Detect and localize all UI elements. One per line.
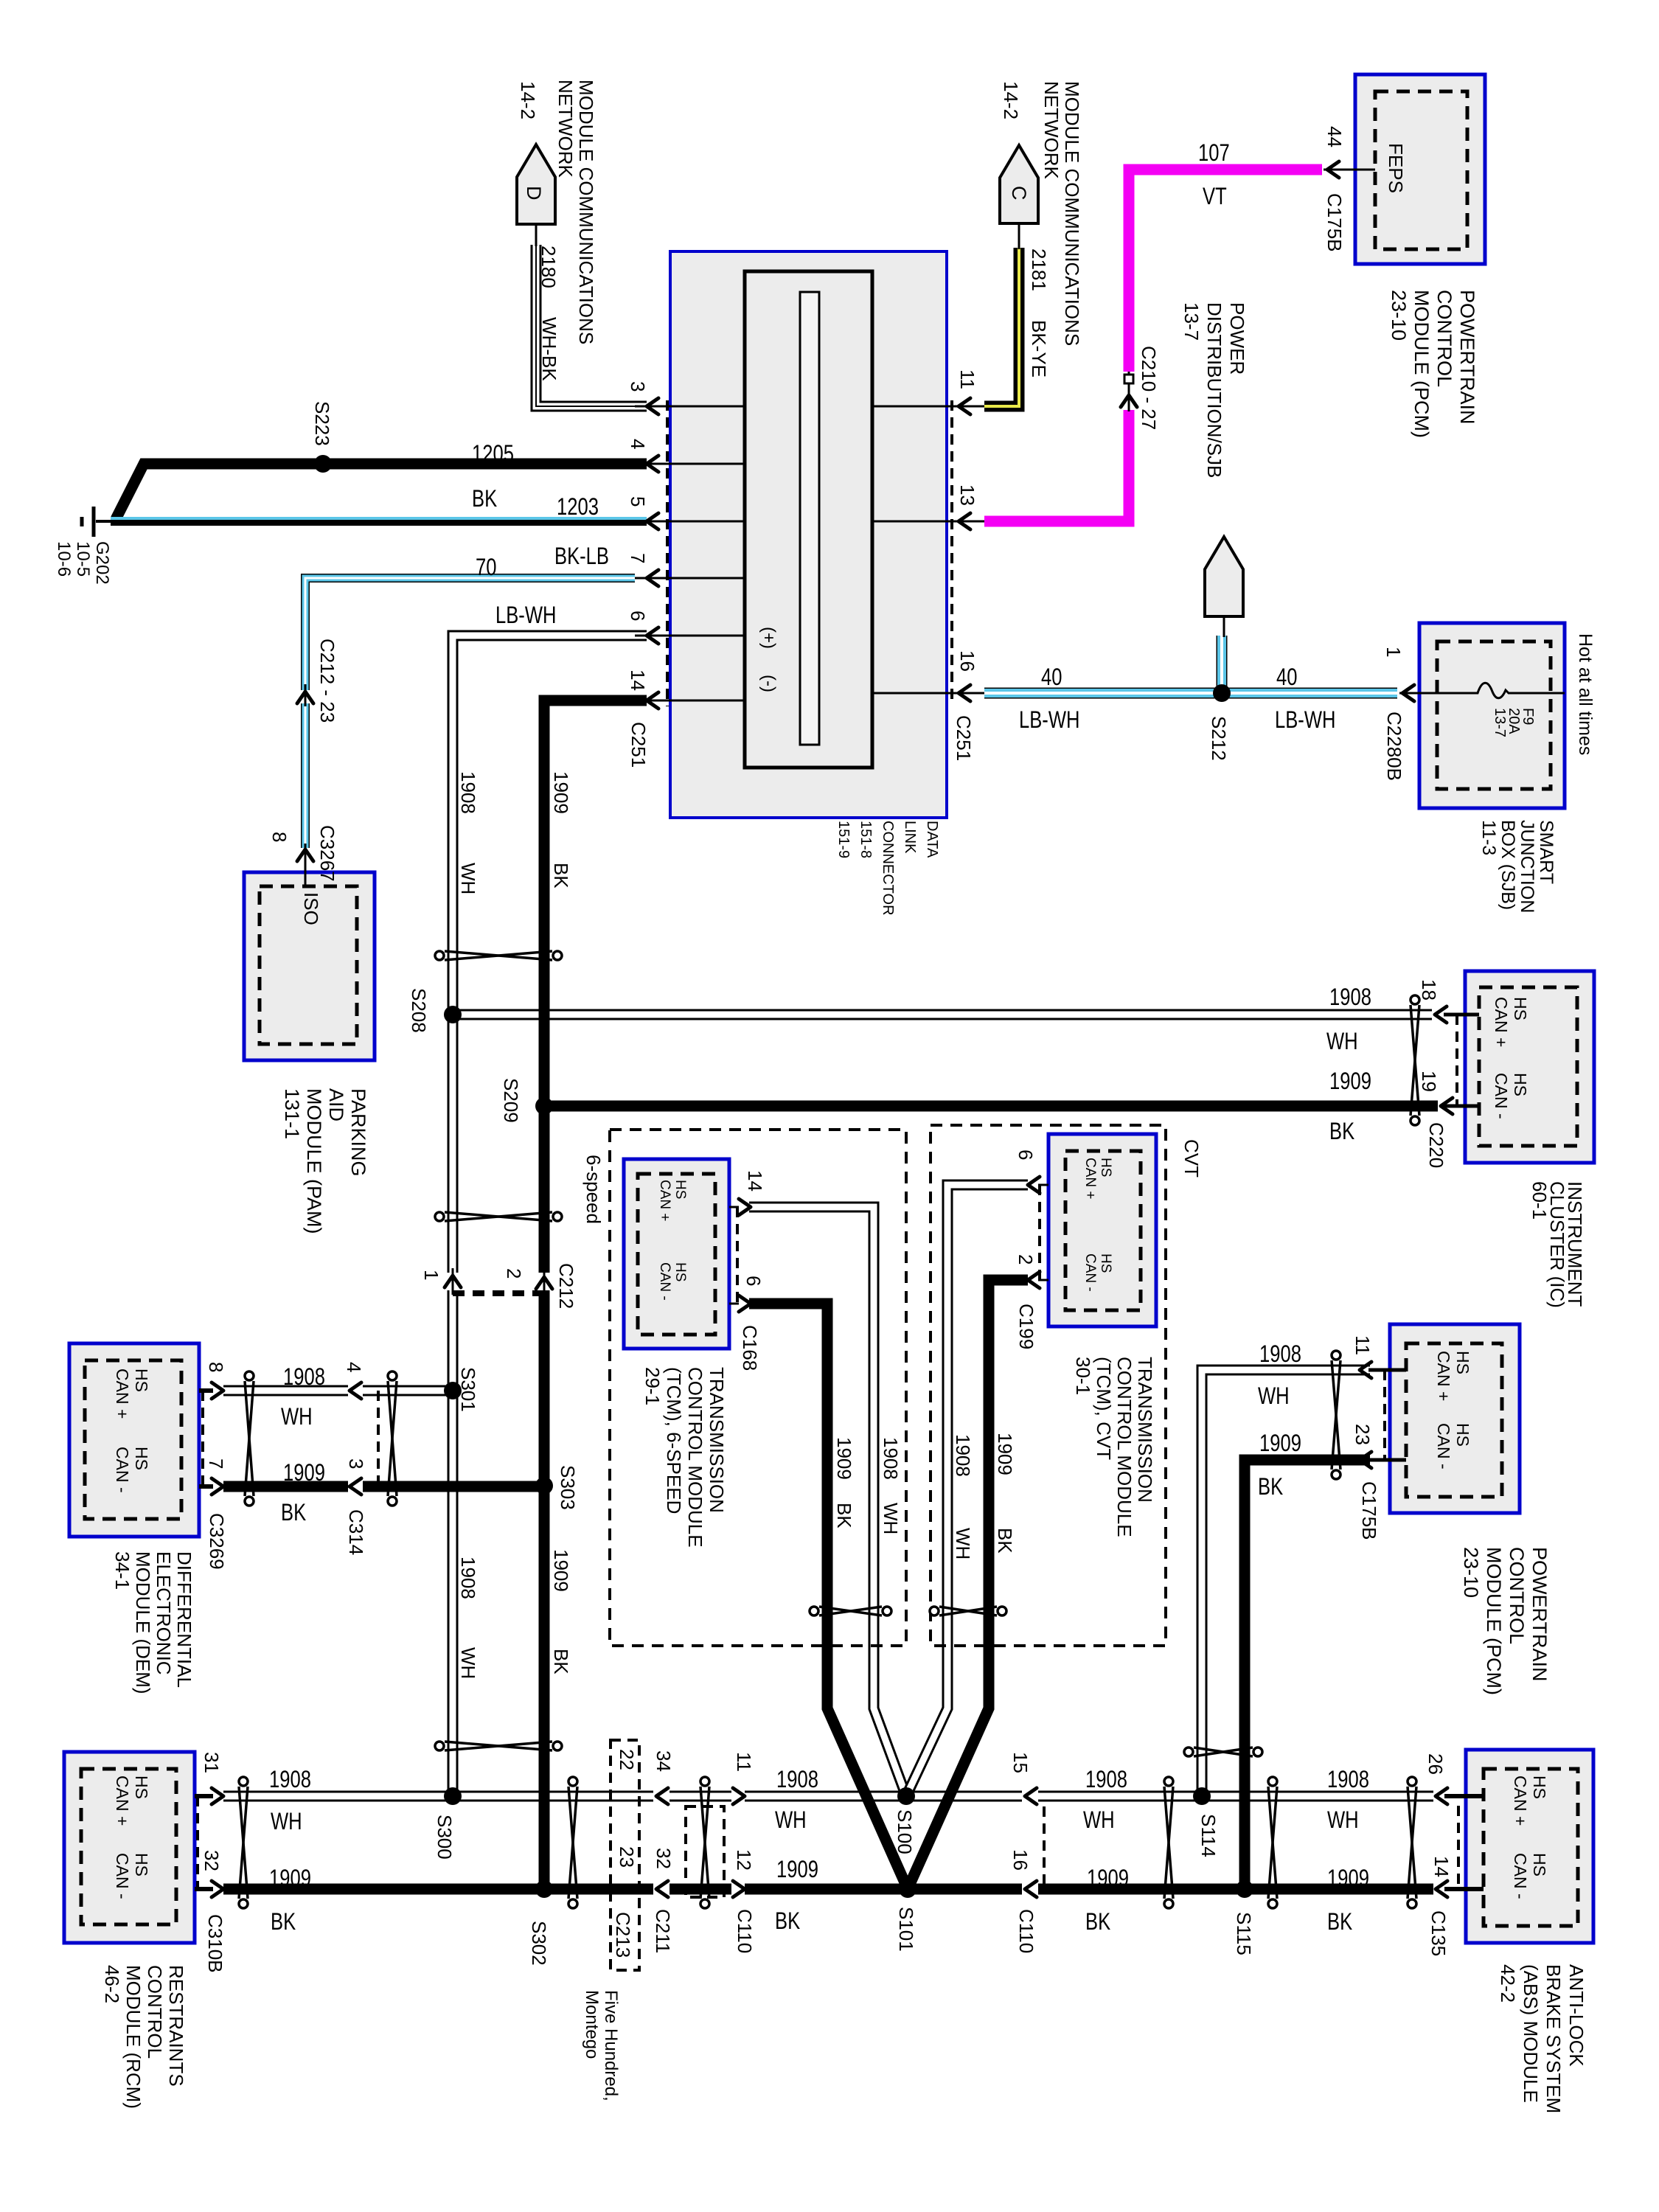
svg-text:S100: S100	[894, 1809, 916, 1854]
svg-text:1908: 1908	[952, 1434, 974, 1477]
svg-text:31: 31	[201, 1752, 223, 1773]
svg-text:4: 4	[627, 439, 649, 449]
svg-text:BK: BK	[1085, 1909, 1110, 1935]
svg-text:WH: WH	[1258, 1383, 1290, 1409]
svg-text:6: 6	[742, 1276, 765, 1286]
svg-text:16: 16	[1009, 1849, 1032, 1871]
svg-text:40: 40	[1276, 664, 1297, 690]
svg-text:BK: BK	[1329, 1119, 1354, 1144]
svg-text:1908: 1908	[880, 1437, 902, 1480]
svg-text:WH: WH	[775, 1807, 807, 1833]
svg-text:18: 18	[1418, 979, 1440, 1001]
svg-text:4: 4	[343, 1362, 365, 1372]
svg-text:1908: 1908	[457, 1557, 479, 1599]
svg-text:1909: 1909	[283, 1460, 325, 1486]
svg-text:C212: C212	[555, 1263, 577, 1309]
svg-text:S302: S302	[528, 1921, 550, 1966]
svg-text:16: 16	[956, 650, 978, 672]
svg-text:1909: 1909	[1329, 1068, 1371, 1094]
svg-text:S114: S114	[1197, 1814, 1220, 1857]
svg-text:BK-LB: BK-LB	[554, 543, 609, 569]
svg-text:1908: 1908	[269, 1767, 311, 1792]
svg-text:C211: C211	[652, 1909, 674, 1953]
svg-text:ISO: ISO	[300, 892, 322, 925]
svg-text:CVT: CVT	[1180, 1139, 1203, 1178]
svg-text:LB-WH: LB-WH	[1019, 707, 1079, 733]
svg-text:1909: 1909	[1087, 1865, 1129, 1891]
svg-text:32: 32	[653, 1848, 675, 1869]
svg-text:BK: BK	[550, 1649, 572, 1674]
svg-text:2: 2	[1015, 1254, 1037, 1265]
svg-text:C3267: C3267	[316, 825, 338, 882]
svg-text:1909: 1909	[833, 1437, 855, 1480]
svg-text:WH: WH	[457, 863, 479, 894]
svg-text:S208: S208	[408, 988, 430, 1033]
svg-text:1909: 1909	[550, 1549, 572, 1592]
svg-text:C220: C220	[1425, 1122, 1447, 1168]
svg-text:1909: 1909	[776, 1857, 818, 1882]
svg-text:BK: BK	[833, 1503, 855, 1528]
svg-text:6: 6	[1015, 1150, 1037, 1160]
svg-text:Hot at all times: Hot at all times	[1575, 633, 1596, 755]
svg-text:32: 32	[201, 1850, 223, 1871]
svg-text:BK: BK	[281, 1500, 306, 1526]
svg-text:7: 7	[627, 553, 649, 563]
svg-text:12: 12	[733, 1849, 755, 1871]
svg-text:1203: 1203	[557, 494, 599, 520]
svg-text:14-2: 14-2	[1000, 81, 1022, 119]
svg-text:BK: BK	[1258, 1474, 1283, 1500]
svg-text:BK: BK	[775, 1908, 800, 1934]
svg-text:C3269: C3269	[206, 1513, 228, 1570]
svg-text:26: 26	[1425, 1753, 1447, 1775]
svg-text:S212: S212	[1208, 716, 1230, 761]
svg-text:S101: S101	[895, 1907, 917, 1952]
svg-text:S301: S301	[457, 1367, 479, 1412]
svg-text:14: 14	[744, 1170, 766, 1192]
svg-text:BK: BK	[472, 486, 497, 512]
svg-text:19: 19	[1418, 1071, 1440, 1092]
svg-text:3: 3	[345, 1458, 367, 1469]
svg-text:LB-WH: LB-WH	[495, 602, 556, 628]
svg-text:C175B: C175B	[1324, 193, 1346, 252]
svg-text:C210 - 27: C210 - 27	[1138, 346, 1160, 430]
svg-text:BK: BK	[550, 863, 572, 888]
svg-text:1908: 1908	[1327, 1767, 1369, 1792]
svg-text:FEPS: FEPS	[1385, 143, 1407, 193]
svg-text:3: 3	[627, 381, 649, 392]
svg-text:1: 1	[420, 1270, 442, 1280]
svg-text:LB-WH: LB-WH	[1275, 707, 1335, 733]
svg-text:C: C	[1008, 186, 1030, 201]
svg-text:2180: 2180	[538, 246, 560, 288]
svg-text:D: D	[523, 186, 545, 201]
svg-text:1908: 1908	[283, 1364, 325, 1390]
svg-text:1908: 1908	[1329, 984, 1371, 1010]
svg-text:WH: WH	[457, 1647, 479, 1679]
svg-text:2: 2	[503, 1268, 525, 1279]
svg-text:WH: WH	[880, 1503, 902, 1534]
svg-text:C314: C314	[345, 1509, 367, 1555]
svg-text:2181: 2181	[1028, 248, 1050, 291]
svg-text:1205: 1205	[472, 441, 514, 467]
svg-text:C168: C168	[739, 1325, 761, 1371]
svg-text:11: 11	[956, 369, 978, 389]
svg-text:107: 107	[1198, 140, 1230, 166]
svg-text:C251: C251	[953, 715, 975, 761]
svg-text:6-speed: 6-speed	[582, 1155, 605, 1224]
svg-text:8: 8	[268, 832, 291, 842]
svg-text:44: 44	[1324, 126, 1346, 147]
svg-text:14: 14	[1430, 1856, 1453, 1877]
svg-text:C175B: C175B	[1358, 1481, 1380, 1540]
svg-text:(+): (+)	[759, 627, 779, 649]
svg-text:14-2: 14-2	[517, 81, 539, 119]
svg-text:11: 11	[1352, 1335, 1374, 1355]
svg-text:1909: 1909	[1327, 1865, 1369, 1891]
svg-text:BK: BK	[1327, 1909, 1352, 1935]
svg-text:C251: C251	[627, 722, 650, 768]
svg-text:1909: 1909	[1259, 1430, 1301, 1456]
svg-text:BK: BK	[994, 1528, 1016, 1554]
svg-text:BK: BK	[271, 1909, 296, 1935]
svg-text:1909: 1909	[550, 771, 572, 814]
svg-text:S303: S303	[557, 1465, 579, 1510]
svg-text:34: 34	[653, 1750, 675, 1772]
svg-text:1908: 1908	[1085, 1767, 1127, 1792]
svg-text:C213: C213	[612, 1912, 634, 1958]
svg-text:S115: S115	[1233, 1912, 1255, 1955]
svg-text:1908: 1908	[776, 1767, 818, 1792]
svg-text:23: 23	[1352, 1424, 1374, 1445]
svg-text:22: 22	[616, 1749, 638, 1770]
svg-text:WH: WH	[281, 1404, 313, 1430]
svg-text:WH: WH	[1327, 1807, 1359, 1833]
svg-text:23: 23	[616, 1846, 638, 1868]
svg-text:C2280B: C2280B	[1383, 712, 1405, 781]
svg-text:C212 - 23: C212 - 23	[316, 639, 338, 723]
svg-text:C199: C199	[1015, 1304, 1037, 1349]
svg-text:WH: WH	[271, 1809, 302, 1834]
svg-text:WH: WH	[952, 1528, 974, 1559]
svg-text:40: 40	[1041, 664, 1062, 690]
svg-text:7: 7	[205, 1458, 227, 1469]
svg-text:13: 13	[956, 484, 978, 506]
svg-text:1909: 1909	[269, 1865, 311, 1891]
svg-text:S223: S223	[311, 401, 333, 446]
svg-text:5: 5	[627, 496, 649, 507]
svg-text:C110: C110	[734, 1909, 756, 1953]
svg-text:WH: WH	[1083, 1807, 1115, 1833]
svg-text:(-): (-)	[759, 675, 779, 692]
svg-text:14: 14	[627, 669, 649, 691]
svg-text:WH: WH	[1326, 1029, 1358, 1054]
svg-text:1909: 1909	[994, 1433, 1016, 1475]
svg-text:VT: VT	[1203, 184, 1227, 209]
svg-text:BK-YE: BK-YE	[1028, 320, 1050, 378]
svg-text:C135: C135	[1427, 1910, 1450, 1956]
svg-text:8: 8	[205, 1362, 227, 1372]
svg-text:6: 6	[627, 611, 649, 621]
svg-text:1908: 1908	[1259, 1341, 1301, 1367]
svg-text:15: 15	[1009, 1752, 1032, 1773]
svg-text:1: 1	[1382, 647, 1405, 657]
svg-text:C110: C110	[1015, 1909, 1037, 1953]
svg-text:S209: S209	[500, 1078, 522, 1123]
svg-text:S300: S300	[434, 1815, 456, 1860]
svg-text:C310B: C310B	[204, 1914, 226, 1973]
svg-text:WH-BK: WH-BK	[538, 317, 560, 381]
svg-text:1908: 1908	[457, 771, 479, 814]
svg-text:11: 11	[733, 1752, 755, 1772]
svg-text:70: 70	[476, 554, 496, 580]
